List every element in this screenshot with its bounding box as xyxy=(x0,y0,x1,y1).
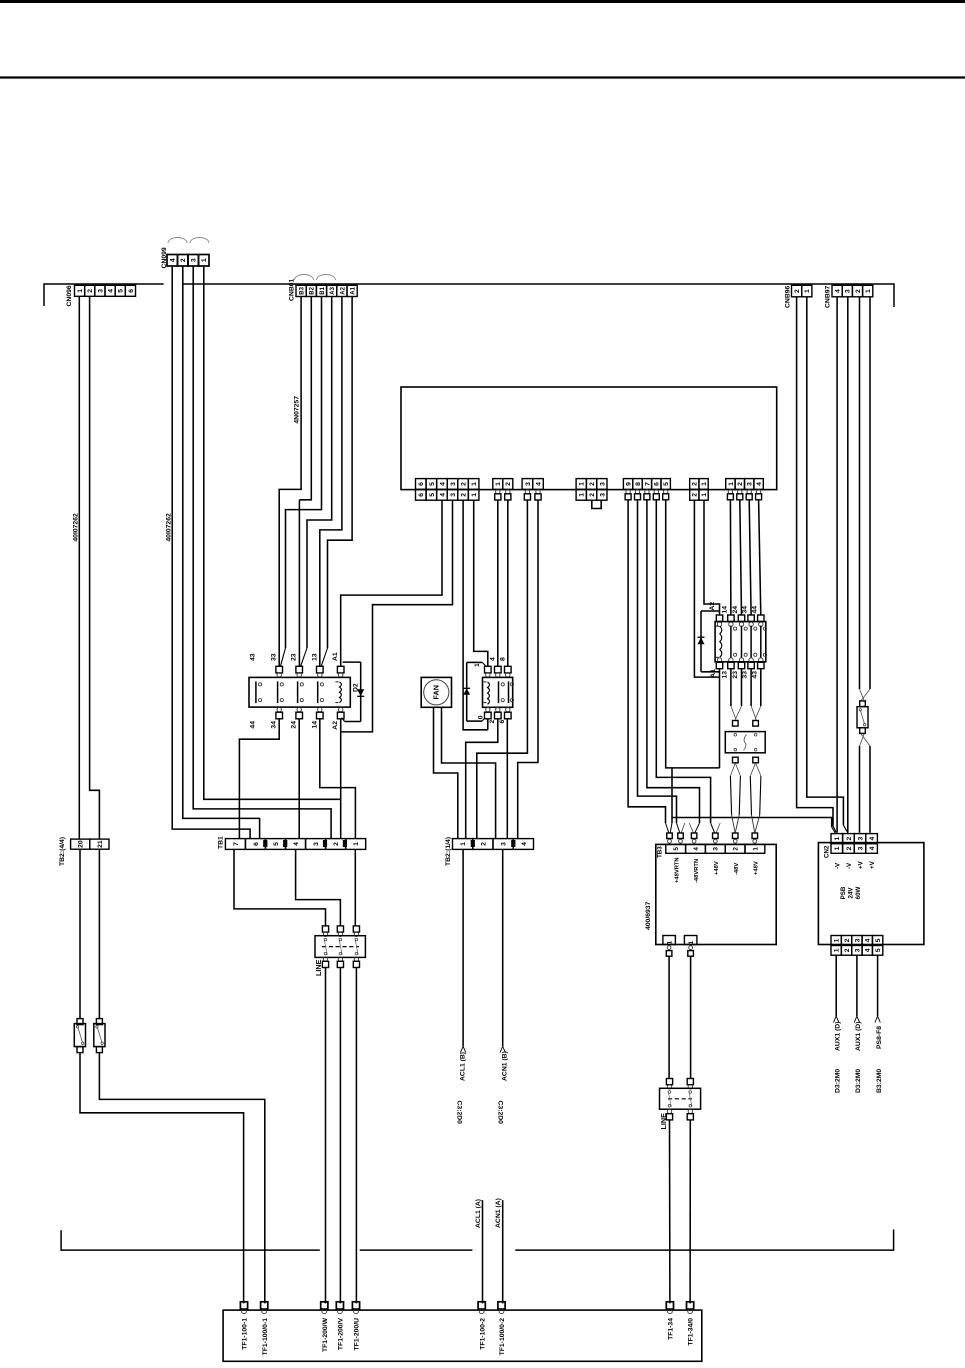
svg-text:A2: A2 xyxy=(709,602,716,611)
PCB connector B pin pads xyxy=(495,490,511,500)
relay K1 bottom pin squares xyxy=(276,707,344,718)
wire TB3 bottom-1a to contactor LINE2 xyxy=(668,956,670,1078)
svg-text:2: 2 xyxy=(844,938,851,942)
svg-text:40I07262: 40I07262 xyxy=(73,513,80,542)
connector CNB97 label xyxy=(825,285,832,308)
svg-text:3: 3 xyxy=(191,258,198,262)
wire CNB01-A3 to relay K1 pin 23 (diagonal) xyxy=(301,297,332,667)
wire relay K1 pin 14 to TB1-1 xyxy=(320,719,356,839)
PCB connector C pin pads xyxy=(524,490,541,500)
svg-text:60W: 60W xyxy=(855,886,862,899)
svg-text:PS8-F8: PS8-F8 xyxy=(876,1026,883,1049)
terminal label -V a xyxy=(834,862,841,869)
svg-text:1: 1 xyxy=(579,482,586,486)
wire top bus right end tick xyxy=(893,283,895,307)
svg-text:5: 5 xyxy=(429,493,436,497)
wire relay K3 pins 13-23 to thermal switch xyxy=(731,669,742,720)
svg-text:-V: -V xyxy=(834,862,841,869)
svg-text:3: 3 xyxy=(313,842,320,846)
terminal label -V b xyxy=(846,862,853,869)
svg-text:34: 34 xyxy=(271,721,278,729)
relay K2 label 8 xyxy=(499,657,506,661)
terminal label +V b xyxy=(869,860,876,869)
svg-text:-V: -V xyxy=(846,862,853,869)
PCB connector E row 9-5 xyxy=(623,479,670,490)
wire fuse F3 to PSB CN2-3 xyxy=(859,746,861,833)
module TB3 bottom cells xyxy=(663,936,697,945)
cable code 0M2:3D a xyxy=(835,1069,842,1093)
PCB connector G pin pads xyxy=(727,490,761,500)
terminal block TB2(1/4) screw marks xyxy=(471,840,516,847)
svg-text:1: 1 xyxy=(666,940,673,944)
wire CN099-4 to TB1-6 xyxy=(172,266,250,839)
relay K3 label 44 xyxy=(751,606,758,614)
relay K3 label 24 xyxy=(732,606,739,614)
PCB connector D row top 1-2-3 xyxy=(576,479,607,490)
svg-text:LINE: LINE xyxy=(659,1113,668,1130)
connector CNB01 pin row B3-A1 xyxy=(296,285,357,296)
net label ACL1 (A) xyxy=(475,1199,482,1228)
wire CNB01-B1 to relay K1 pin 33 (diagonal) xyxy=(280,297,321,667)
cable code 0M2:3B xyxy=(876,1069,883,1093)
terminal block TB2(4/4) label xyxy=(59,837,66,866)
relay K3 label 33 xyxy=(742,671,749,679)
svg-text:1: 1 xyxy=(701,482,708,486)
thermal switch S1 xyxy=(725,721,765,763)
svg-text:5: 5 xyxy=(118,289,125,293)
net label ACN1 (A) xyxy=(495,1198,502,1228)
PCB connector D row bottom 1-2-3 xyxy=(576,489,607,500)
svg-text:A1: A1 xyxy=(710,669,717,678)
wire F-1 to relay K3 pin A2 top xyxy=(704,500,720,615)
connector CNB01 mating arcs xyxy=(295,275,336,281)
relay K1 label 34 xyxy=(271,721,278,729)
terminal block TB2(4/4) cells 20-21 xyxy=(71,839,109,849)
svg-text:3: 3 xyxy=(525,482,532,486)
svg-text:1: 1 xyxy=(688,940,695,944)
relay K1 top pin squares xyxy=(276,666,344,677)
contactor LINE1 bottom pin squares xyxy=(322,957,359,968)
svg-text:5: 5 xyxy=(273,842,280,846)
wire B-2 to relay K2 pin top-3 xyxy=(507,500,509,666)
svg-text:TB1: TB1 xyxy=(218,836,225,849)
svg-text:A2: A2 xyxy=(332,721,339,730)
svg-text:AUX1 (D): AUX1 (D) xyxy=(855,1022,862,1051)
svg-text:8: 8 xyxy=(499,657,506,661)
svg-text:4: 4 xyxy=(835,289,842,293)
svg-text:5: 5 xyxy=(673,847,680,851)
PCB connector F row bottom 2-1 xyxy=(690,489,709,500)
svg-text:40I07262: 40I07262 xyxy=(166,513,173,542)
part label 400/6937 xyxy=(645,901,652,930)
svg-text:FAN: FAN xyxy=(432,685,441,699)
svg-text:B1: B1 xyxy=(320,286,326,294)
wire G-1 to relay K3 pin 14 xyxy=(729,500,732,615)
terminal label TF1-100/0-1 xyxy=(262,1318,269,1356)
svg-text:1: 1 xyxy=(579,493,586,497)
svg-text:CN096: CN096 xyxy=(66,285,73,306)
PCB connector A row top 6-1 xyxy=(416,479,479,490)
svg-text:4: 4 xyxy=(439,493,446,497)
svg-text:CNB97: CNB97 xyxy=(825,285,832,308)
terminal label +48VRTN xyxy=(674,857,680,883)
module TB3 label xyxy=(657,846,664,858)
wire fuse F3 to PSB CN2-4 xyxy=(869,746,871,833)
svg-text:3: 3 xyxy=(845,289,852,293)
PCB connector G row 1-2-3-4 xyxy=(726,479,764,490)
wire CNB01-B2 to relay K1 pin 23 xyxy=(299,297,311,500)
fuse F3 crossover bottom xyxy=(860,734,871,747)
connector CNB97 pin row 4-3-2-1 xyxy=(832,285,873,297)
wire LINE1 pin3 to TF1-200/U xyxy=(355,968,357,1304)
wire CNB01-A1 to relay K1 pin 13 (diagonal) xyxy=(321,297,352,667)
wire C-4 to TB2(1/4)-4 xyxy=(518,500,538,839)
relay K1 label 13 xyxy=(311,653,318,661)
terminal box TF1 pin squares xyxy=(240,1302,693,1314)
svg-text:C3:2D0: C3:2D0 xyxy=(456,1101,463,1125)
relay K1 label 23 xyxy=(291,653,298,661)
wire LINE1 pin1 to TF1-200/W xyxy=(325,968,327,1304)
wire CN099-3 to TB1-2 xyxy=(193,266,331,839)
node TB3-5a feeder xyxy=(670,768,672,833)
svg-text:TF1-200/V: TF1-200/V xyxy=(338,1318,345,1351)
svg-text:23: 23 xyxy=(732,671,739,679)
wire relay K1 pin 23 feeder xyxy=(298,500,300,667)
wire TB1-1 to contactor LINE1 pin3 xyxy=(354,849,356,926)
svg-text:4: 4 xyxy=(439,482,446,486)
svg-text:+48VRTN: +48VRTN xyxy=(674,857,680,883)
relay K3 label 13 xyxy=(721,671,728,679)
terminal block TB1 screw marks xyxy=(263,840,347,847)
wire B-1 to relay K2 pin top-2 xyxy=(497,500,499,666)
PCB connector E pin pads xyxy=(625,490,669,500)
svg-text:2: 2 xyxy=(733,847,740,851)
svg-text:1: 1 xyxy=(752,847,759,851)
svg-text:D3:2M0: D3:2M0 xyxy=(835,1069,842,1093)
svg-text:7: 7 xyxy=(644,482,651,486)
relay K2 top pin squares xyxy=(485,666,512,677)
relay K3 label 43 xyxy=(751,671,758,679)
relay K1 label 33 xyxy=(271,653,278,661)
wire CNB96-1 to PSB CN2-2 xyxy=(807,297,848,833)
svg-text:TF1-100/0-2: TF1-100/0-2 xyxy=(499,1318,506,1356)
svg-text:5: 5 xyxy=(875,938,882,942)
connector CNB96 pin row 2-1 xyxy=(792,285,812,297)
svg-text:3: 3 xyxy=(501,842,508,846)
terminal block TB2(1/4) cells 1-4 xyxy=(453,839,534,850)
svg-text:B3:2M0: B3:2M0 xyxy=(876,1069,883,1093)
svg-text:+V: +V xyxy=(858,860,865,869)
relay K1 label 14 xyxy=(311,721,318,729)
cable label 40I07262 middle xyxy=(166,513,173,542)
terminal label TF1-34 xyxy=(668,1318,675,1340)
svg-text:33: 33 xyxy=(742,671,749,679)
svg-text:TF1-100-1: TF1-100-1 xyxy=(242,1318,249,1350)
wire PSB out-5 stub PS8-F8 xyxy=(875,955,880,1022)
power supply PSB box xyxy=(818,843,924,945)
wire E-6 to TB3-3 xyxy=(656,500,720,833)
svg-text:3: 3 xyxy=(857,846,864,850)
svg-text:1: 1 xyxy=(834,938,841,942)
wire LINE2 pin2 to TF1-34/0 xyxy=(689,1120,691,1304)
svg-text:1: 1 xyxy=(701,493,708,497)
svg-text:2: 2 xyxy=(460,482,467,486)
wire PSB out-3 stub AUX1(D)b xyxy=(854,955,859,1022)
relay K1 label 44 xyxy=(250,721,257,729)
svg-text:6: 6 xyxy=(253,842,260,846)
svg-text:4N07257: 4N07257 xyxy=(294,396,301,424)
terminal label +V a xyxy=(858,860,865,869)
svg-text:+48V: +48V xyxy=(754,861,760,875)
wire TB2(1/4)-3 stub ACN1(B) xyxy=(500,849,505,1052)
svg-text:ACL1 (A): ACL1 (A) xyxy=(475,1199,482,1228)
svg-text:44: 44 xyxy=(250,721,257,729)
svg-text:34: 34 xyxy=(742,606,749,614)
diode D3 across relay K2 coil xyxy=(463,662,485,721)
connector CN2 label xyxy=(824,845,831,858)
wire relay K2 pin bottom-2 to TB2(1/4)-1 xyxy=(466,719,498,839)
contactor LINE2 top pin squares xyxy=(666,1079,693,1090)
svg-text:1: 1 xyxy=(495,482,502,486)
svg-text:1: 1 xyxy=(804,289,811,293)
svg-text:ACL1 (B): ACL1 (B) xyxy=(460,1052,467,1081)
svg-text:3: 3 xyxy=(97,289,104,293)
svg-text:1: 1 xyxy=(460,842,467,846)
svg-text:TB3: TB3 xyxy=(657,846,664,858)
connector CN099 mating arcs xyxy=(168,238,209,243)
svg-text:A3: A3 xyxy=(330,286,336,294)
header separator rule xyxy=(0,76,965,78)
svg-text:TF1-34: TF1-34 xyxy=(668,1318,675,1340)
wire E-5 to relay K3 pin A1 xyxy=(666,500,720,768)
wire top bus left end tick xyxy=(43,283,45,306)
connector CN2 row bottom 1-4 xyxy=(831,844,877,854)
svg-text:2: 2 xyxy=(460,493,467,497)
svg-text:20: 20 xyxy=(78,840,85,848)
frame line right end tick xyxy=(893,1230,895,1251)
wire stub ACL1(A) to TF1-100-2 xyxy=(482,1200,484,1303)
wire TB3-5a to PSB CN2-1 xyxy=(672,818,835,833)
wire G-4 to relay K3 pin 44 xyxy=(759,500,761,615)
contactor LINE1 label xyxy=(314,959,323,976)
svg-text:1: 1 xyxy=(471,493,478,497)
svg-text:ACN1 (B): ACN1 (B) xyxy=(502,1051,509,1081)
relay K3 label 14 xyxy=(721,606,728,614)
relay K1 label A2 xyxy=(332,721,339,730)
wire CN096-2 to TB2(4/4)-21 xyxy=(90,296,100,839)
svg-text:3: 3 xyxy=(450,482,457,486)
diode D2 label xyxy=(353,683,360,692)
svg-text:7: 7 xyxy=(233,842,240,846)
terminal label TF1-200/W xyxy=(322,1317,329,1352)
wire CNB97-1 to fuse F3 xyxy=(869,297,871,689)
wire CNB01-B3 to relay K1 pin 33 xyxy=(279,297,301,667)
svg-text:1: 1 xyxy=(474,663,481,667)
terminal label TF1-200/V xyxy=(338,1318,345,1351)
power supply PSB output cells row bottom 1-5 xyxy=(831,945,883,955)
svg-text:13: 13 xyxy=(721,671,728,679)
svg-text:43: 43 xyxy=(751,671,758,679)
relay K2 label 6 xyxy=(499,719,506,723)
svg-text:TF1-34/0: TF1-34/0 xyxy=(688,1318,695,1346)
svg-text:24: 24 xyxy=(291,721,298,729)
svg-text:5: 5 xyxy=(875,948,882,952)
wire relay K2 pin bottom-3 to TB2(1/4)-3 xyxy=(506,719,508,839)
svg-text:2: 2 xyxy=(589,482,596,486)
module TB3 top cells 5-1 xyxy=(666,844,765,853)
svg-text:1: 1 xyxy=(471,482,478,486)
wire stub ACN1(A) to TF1-100/0-2 xyxy=(502,1200,504,1303)
svg-text:8: 8 xyxy=(635,482,642,486)
svg-text:-48VRTN: -48VRTN xyxy=(694,859,700,883)
svg-text:2: 2 xyxy=(333,842,340,846)
svg-text:LINE: LINE xyxy=(314,959,323,976)
cable label 40I07262 left xyxy=(73,513,80,542)
wire FAN right to TB2(1/4)-3 xyxy=(442,707,496,838)
wire CNB97-4 to PSB CN2-1 xyxy=(836,297,838,833)
PCB connector F row top 2-1 xyxy=(690,479,709,490)
wire G-3 to relay K3 pin 34 xyxy=(749,500,751,615)
frame line bottom left segment xyxy=(61,1249,320,1251)
svg-text:3: 3 xyxy=(857,836,864,840)
svg-text:-48V: -48V xyxy=(734,863,740,875)
svg-text:ACN1 (A): ACN1 (A) xyxy=(495,1198,502,1228)
svg-text:TF1-200/U: TF1-200/U xyxy=(354,1318,361,1351)
module TB3 top pin squares xyxy=(667,833,758,843)
svg-text:CNB96: CNB96 xyxy=(785,285,792,308)
PCB connector B row 1-2 xyxy=(493,479,513,490)
terminal label +48V a xyxy=(714,861,720,875)
relay K1 body xyxy=(249,677,350,707)
net label ACN1 (B) xyxy=(502,1051,509,1081)
contactor LINE2 body xyxy=(660,1088,701,1109)
svg-text:4: 4 xyxy=(489,657,496,661)
svg-text:6: 6 xyxy=(499,719,506,723)
connector CN2 row top 1-4 xyxy=(831,834,877,844)
svg-text:2: 2 xyxy=(846,836,853,840)
svg-text:6: 6 xyxy=(418,482,425,486)
relay K3 label 34 xyxy=(742,606,749,614)
svg-text:9: 9 xyxy=(626,482,633,486)
svg-text:24: 24 xyxy=(732,606,739,614)
terminal label -48V xyxy=(734,863,740,875)
svg-text:24V: 24V xyxy=(848,887,855,899)
net label PS8-F8 xyxy=(876,1026,883,1049)
svg-text:TF1-100-2: TF1-100-2 xyxy=(479,1318,486,1350)
svg-text:3: 3 xyxy=(854,948,861,952)
fuse F1 xyxy=(74,1019,85,1053)
wire fuse F1 to TF1-100-1 xyxy=(80,1052,244,1303)
diode D4 across relay K3 coil xyxy=(698,611,720,672)
svg-text:2: 2 xyxy=(794,289,801,293)
wire PSB out-1 stub AUX1(D)a xyxy=(834,955,839,1022)
wire CN096-1 to TB2(4/4)-20 xyxy=(78,296,80,839)
wire fuse F2 to TF1-100/0-1 xyxy=(99,1052,264,1303)
wire relay K3 pins 33-43 to thermal switch xyxy=(751,669,761,720)
svg-text:400/6937: 400/6937 xyxy=(645,901,652,930)
connector CN096 pin row 1-6 xyxy=(75,285,136,296)
net label ACL1 (B) xyxy=(460,1052,467,1081)
svg-text:13: 13 xyxy=(311,653,318,661)
terminal block TB1 cells 7-1 xyxy=(225,839,365,850)
frame line bottom middle segment xyxy=(360,1249,473,1251)
connector CNB96 label xyxy=(785,285,792,308)
relay K2 bottom pin squares xyxy=(485,707,512,718)
svg-text:4: 4 xyxy=(293,842,300,846)
svg-text:43: 43 xyxy=(250,653,257,661)
terminal block TB2(1/4) label xyxy=(445,837,452,866)
svg-text:1: 1 xyxy=(77,289,84,293)
svg-text:1: 1 xyxy=(201,258,208,262)
svg-text:2: 2 xyxy=(87,289,94,293)
relay K1 label 24 xyxy=(291,721,298,729)
terminal label TF1-100/0-2 xyxy=(499,1318,506,1356)
svg-text:6: 6 xyxy=(128,289,135,293)
frame line bottom right segment xyxy=(515,1249,893,1251)
svg-text:4: 4 xyxy=(869,836,876,840)
module TB3 bottom pins xyxy=(666,946,693,957)
terminal label TF1-34/0 xyxy=(688,1318,695,1346)
wire relay K3 pin A1 down xyxy=(719,669,721,768)
wire F-2 to relay K3 pin A1 bottom xyxy=(694,500,719,677)
wire thermal switch to TB3-2 pair xyxy=(730,763,740,833)
svg-text:TF1-200/W: TF1-200/W xyxy=(322,1317,329,1352)
svg-text:4: 4 xyxy=(865,938,872,942)
wire A-4 to relay K1 pin A1 xyxy=(341,500,442,666)
wire G-2 to relay K3 pin 24 xyxy=(740,500,742,615)
wire LINE1 pin2 to TF1-200/V xyxy=(339,968,341,1304)
svg-text:2: 2 xyxy=(480,842,487,846)
wire CN099-2 to TB1-6 xyxy=(183,266,260,839)
svg-text:0: 0 xyxy=(477,715,484,719)
svg-text:3: 3 xyxy=(713,847,720,851)
svg-text:1: 1 xyxy=(865,289,872,293)
svg-text:14: 14 xyxy=(721,606,728,614)
svg-text:1: 1 xyxy=(834,948,841,952)
terminal label +48V b xyxy=(754,861,760,875)
svg-text:2: 2 xyxy=(844,948,851,952)
svg-text:2: 2 xyxy=(692,493,699,497)
frame line left end tick xyxy=(60,1230,62,1251)
wire CNB97-2 to fuse F3 xyxy=(859,297,861,689)
wire top bus horizontal xyxy=(44,283,894,285)
cable code 0D2:3C right xyxy=(496,1101,503,1125)
svg-text:PSB: PSB xyxy=(840,886,847,899)
fuse F3 xyxy=(857,701,868,733)
svg-text:2: 2 xyxy=(846,846,853,850)
main control PCB outline xyxy=(401,387,777,490)
wire thermal switch to TB3-1 pair xyxy=(750,763,761,833)
relay K2 label 4 xyxy=(489,657,496,661)
terminal block TB1 label xyxy=(218,836,225,849)
wire relay K1 pin A2 to TB1-2 xyxy=(340,719,342,839)
svg-text:2: 2 xyxy=(692,482,699,486)
svg-text:6: 6 xyxy=(654,482,661,486)
fan motor FAN xyxy=(421,677,451,707)
svg-text:5: 5 xyxy=(663,482,670,486)
wire TB2(4/4)-21 to fuse F2 xyxy=(98,849,100,1018)
wire relay K1 pin 24 to TB1-3 xyxy=(298,719,300,839)
wire A-1 to relay K2 coil circuit with diode D3 xyxy=(474,500,488,666)
relay K1 label 43 xyxy=(250,653,257,661)
wire CN099-1 to node A2/TB1-2 xyxy=(204,266,341,799)
cable code 0M2:3D b xyxy=(855,1069,862,1093)
wire TB2(1/4)-1 stub ACL1(B) xyxy=(460,849,465,1052)
svg-text:4: 4 xyxy=(535,482,542,486)
svg-text:D3:2M0: D3:2M0 xyxy=(855,1069,862,1093)
svg-text:AUX1 (D): AUX1 (D) xyxy=(835,1022,842,1051)
svg-text:2: 2 xyxy=(589,493,596,497)
